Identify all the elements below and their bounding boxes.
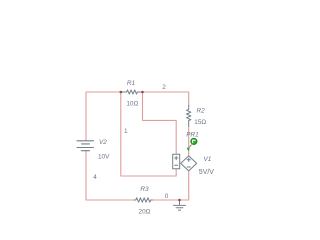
- resistor R1: [121, 90, 143, 94]
- svg-text:15Ω: 15Ω: [194, 119, 206, 126]
- wire: left rail below battery (node 4): [86, 151, 134, 200]
- svg-text:4: 4: [93, 174, 97, 181]
- svg-text:2: 2: [162, 84, 166, 91]
- svg-text:20Ω: 20Ω: [139, 208, 151, 215]
- resistor R3: [134, 198, 153, 202]
- wire: node 2 branch down from R1 right to VCVS control plus: [143, 92, 177, 154]
- svg-text:0: 0: [165, 193, 169, 200]
- wire: bottom rail right of R3 (node 0): [153, 171, 189, 200]
- svg-text:R2: R2: [197, 107, 206, 114]
- svg-text:10V: 10V: [98, 154, 110, 161]
- wire: R2 bottom to dependent source top: [188, 126, 190, 156]
- probe PR1 arrow: [187, 145, 192, 152]
- junction dot at R1 left (node 1): [120, 91, 123, 94]
- wire: node 1 branch down from R1 left to VCVS control minus: [121, 92, 176, 176]
- svg-text:R1: R1: [127, 80, 136, 87]
- svg-text:R3: R3: [140, 186, 149, 193]
- junction dot at R1 right (node 2): [141, 91, 144, 94]
- probe PR1 circle: [191, 138, 197, 144]
- svg-text:5V/V: 5V/V: [199, 169, 215, 176]
- wire: top rail right segment (node 2): [143, 92, 189, 105]
- junction dot at ground tap (node 0): [178, 199, 181, 202]
- svg-text:V2: V2: [99, 139, 107, 146]
- resistor R2: [187, 105, 191, 126]
- svg-text:V1: V1: [204, 156, 212, 163]
- dependent source V1 control port rectangle: [173, 154, 180, 169]
- svg-text:1: 1: [124, 128, 128, 135]
- svg-text:PR1: PR1: [186, 131, 199, 138]
- ground: [174, 200, 186, 210]
- svg-text:10Ω: 10Ω: [126, 101, 138, 108]
- battery V2: [77, 141, 94, 151]
- dependent source V1 diamond (VCVS): [181, 156, 197, 171]
- wire: top rail left segment (node 1): [86, 92, 121, 141]
